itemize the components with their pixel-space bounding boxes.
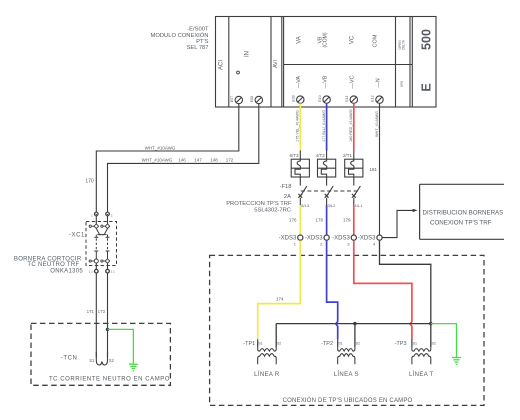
svg-text:DELTA: DELTA	[402, 39, 406, 50]
svg-text:-TP3: -TP3	[395, 341, 407, 347]
svg-text:1.1: 1.1	[89, 270, 94, 274]
svg-text:-E/S00T: -E/S00T	[187, 27, 209, 33]
svg-text:COM: COM	[373, 34, 379, 47]
svg-text:181: 181	[369, 167, 377, 172]
svg-text:E12: E12	[371, 95, 375, 101]
svg-text:SEL 787: SEL 787	[186, 45, 208, 51]
svg-text:S2: S2	[277, 342, 281, 346]
svg-text:TC NEUTRO TRF: TC NEUTRO TRF	[27, 262, 79, 268]
svg-text:(COM): (COM)	[323, 32, 329, 47]
svg-text:172: 172	[226, 157, 234, 162]
svg-text:2: 2	[111, 214, 113, 218]
svg-text:-TP2: -TP2	[321, 341, 333, 347]
svg-text:500: 500	[420, 29, 434, 50]
svg-text:-XC1: -XC1	[69, 233, 85, 239]
svg-text:WHT_#10AWG: WHT_#10AWG	[142, 158, 173, 163]
svg-text:E07: E07	[230, 96, 234, 102]
svg-text:-TCN: -TCN	[61, 356, 78, 362]
svg-text:—VC: —VC	[350, 75, 356, 88]
svg-text:2: 2	[320, 241, 323, 246]
svg-text:HF6: HF6	[400, 81, 404, 87]
svg-text:—N: —N	[375, 78, 381, 88]
svg-text:ACI: ACI	[219, 60, 225, 70]
svg-text:E: E	[420, 83, 434, 91]
svg-text:1T3: 1T3	[98, 309, 106, 314]
svg-text:S2: S2	[109, 358, 115, 363]
svg-text:179: 179	[343, 218, 351, 223]
svg-text:CONEXIÓN DE TP'S UBICADOS EN C: CONEXIÓN DE TP'S UBICADOS EN CAMPO	[283, 397, 413, 404]
svg-text:—VB: —VB	[322, 75, 328, 88]
svg-text:LÍNEA S: LÍNEA S	[334, 371, 359, 378]
svg-text:1: 1	[294, 241, 297, 246]
svg-text:S2: S2	[432, 342, 436, 346]
svg-text:2/T1: 2/T1	[343, 153, 353, 158]
svg-text:LÍNEA R: LÍNEA R	[254, 371, 280, 378]
svg-text:5/L3: 5/L3	[301, 203, 310, 208]
svg-text:IN: IN	[245, 51, 251, 57]
svg-text:180 RED_#14AWG: 180 RED_#14AWG	[349, 109, 353, 142]
svg-text:WHT_#10AWG: WHT_#10AWG	[145, 145, 176, 150]
svg-text:6/T3: 6/T3	[290, 153, 300, 158]
svg-text:WHT_#14AWG: WHT_#14AWG	[375, 111, 379, 137]
svg-text:S1: S1	[338, 342, 342, 346]
svg-text:MODULO CONEXIÓN: MODULO CONEXIÓN	[151, 32, 209, 39]
svg-text:LÍNEA T: LÍNEA T	[409, 371, 434, 378]
svg-text:177 BLU_#14AWG: 177 BLU_#14AWG	[322, 110, 326, 142]
svg-text:176: 176	[289, 218, 297, 223]
svg-text:S1: S1	[413, 342, 417, 346]
svg-text:E11: E11	[345, 96, 349, 102]
svg-text:4/T2: 4/T2	[316, 153, 326, 158]
svg-text:S2: S2	[356, 342, 360, 346]
svg-text:E08: E08	[250, 96, 254, 102]
svg-text:3: 3	[347, 241, 350, 246]
svg-text:3/L2: 3/L2	[328, 203, 337, 208]
svg-text:1T1: 1T1	[87, 309, 95, 314]
svg-text:4: 4	[373, 241, 376, 246]
svg-text:S1: S1	[258, 342, 262, 346]
svg-text:5SL4302-7RC: 5SL4302-7RC	[254, 208, 291, 214]
svg-text:AVI: AVI	[273, 60, 279, 68]
svg-text:148: 148	[210, 157, 218, 162]
svg-text:ONKA1305: ONKA1305	[50, 269, 83, 275]
svg-text:175 YEL_#14AWG: 175 YEL_#14AWG	[296, 110, 300, 142]
svg-text:VA: VA	[297, 36, 303, 44]
svg-text:1/L1: 1/L1	[355, 203, 364, 208]
svg-text:E09: E09	[292, 95, 296, 101]
svg-text:2A: 2A	[284, 194, 291, 200]
svg-text:2.1: 2.1	[111, 270, 116, 274]
svg-text:1: 1	[91, 214, 93, 218]
svg-text:DISTRIBUCION BORNERAS: DISTRIBUCION BORNERAS	[423, 210, 504, 217]
svg-text:174: 174	[276, 297, 284, 302]
svg-text:147: 147	[194, 157, 202, 162]
svg-text:VC: VC	[350, 35, 356, 44]
svg-text:TC CORRIENTE NEUTRO EN CAMPO: TC CORRIENTE NEUTRO EN CAMPO	[49, 376, 170, 382]
svg-text:CONEXION TP'S TRF: CONEXION TP'S TRF	[430, 219, 492, 226]
svg-text:170: 170	[85, 179, 94, 185]
svg-text:S1: S1	[89, 358, 95, 363]
svg-text:PROTECCION TP'S TRF: PROTECCION TP'S TRF	[226, 201, 292, 207]
svg-text:-F18: -F18	[280, 184, 292, 190]
svg-text:—VA: —VA	[296, 75, 302, 88]
svg-text:-TP1: -TP1	[243, 341, 255, 347]
svg-text:E10: E10	[318, 95, 322, 101]
svg-text:146: 146	[178, 157, 186, 162]
svg-text:178: 178	[315, 218, 323, 223]
